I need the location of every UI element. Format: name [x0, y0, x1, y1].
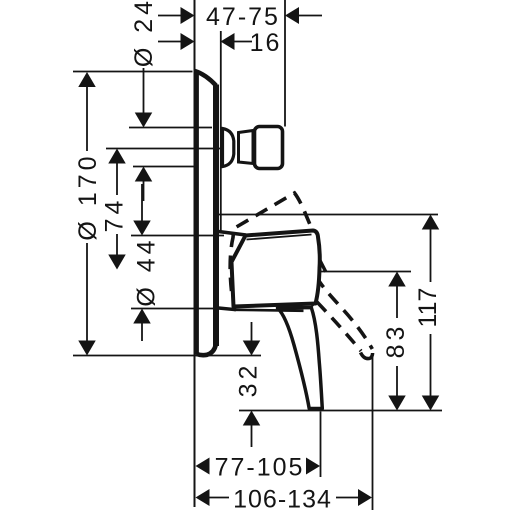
dimension diam24 [135, 68, 153, 201]
diam44 top extension line [131, 235, 224, 237]
dimension 77-105 [196, 458, 321, 475]
dimension 117 [422, 215, 440, 411]
knob ring [239, 131, 254, 164]
dimension 47-75 [158, 7, 322, 24]
plate back edge [194, 71, 199, 355]
dimension 74 [108, 149, 126, 270]
83 top extension line [317, 271, 411, 273]
plate top curve [195, 71, 216, 86]
handle body [232, 231, 320, 307]
handle body inner bottom line [234, 310, 304, 311]
lever raised position, tip hook [361, 353, 373, 359]
lever tip extension line [239, 410, 442, 412]
47-75 right extension line [284, 0, 286, 127]
wall plane extension line [194, 0, 196, 507]
106-134 right extension line [372, 356, 374, 511]
77-105 right extension line [320, 412, 322, 478]
svg-text:83: 83 [382, 323, 410, 359]
lever raised position, lower dashed edge [317, 302, 361, 351]
lever raised position, base corner mark [320, 260, 326, 272]
knob end cap [255, 127, 283, 169]
knob bottom extension line [133, 166, 197, 168]
svg-text:Ø 24: Ø 24 [130, 0, 158, 67]
117 top extension line [219, 214, 439, 216]
dimension diam44 [133, 184, 151, 341]
diam44 bottom extension line [131, 308, 224, 310]
dimension 83 [388, 272, 406, 411]
dimension 16 [158, 33, 252, 50]
plate front face [213, 85, 219, 347]
bracket bottom edge [219, 308, 237, 310]
knob neck [223, 129, 234, 167]
plate front bottom hook [197, 344, 216, 355]
bracket top edge [219, 232, 247, 236]
svg-text:47-75: 47-75 [206, 3, 280, 31]
knob centre extension line [106, 148, 222, 150]
diam170 bottom / 32 top extension line [73, 355, 261, 357]
handle body inner top line [247, 235, 312, 240]
lever (solid, lowered position) [278, 308, 323, 409]
knob top extension line [129, 127, 212, 129]
svg-text:16: 16 [250, 29, 282, 57]
pivot notch at body corner [312, 301, 318, 307]
svg-text:106-134: 106-134 [233, 486, 332, 514]
svg-text:117: 117 [414, 288, 442, 328]
svg-text:77-105: 77-105 [215, 454, 305, 482]
lever raised position, upper dashed edge [230, 193, 372, 349]
dimension 106-134 [196, 489, 373, 506]
dimension 32 [243, 322, 261, 447]
svg-text:Ø 170: Ø 170 [74, 152, 102, 240]
svg-text:32: 32 [235, 362, 263, 398]
dimension diam170 [78, 72, 96, 356]
svg-text:74: 74 [101, 197, 129, 233]
plate front plane extension line (16) [220, 31, 222, 231]
svg-text:Ø 44: Ø 44 [133, 236, 161, 306]
plate top extension line [73, 71, 193, 73]
escutcheon plate (side view) [197, 72, 216, 355]
